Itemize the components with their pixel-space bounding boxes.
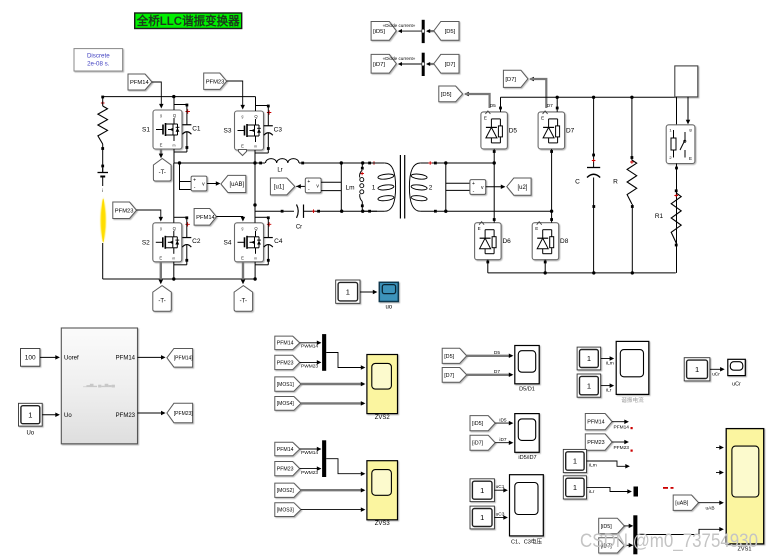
svg-text:m: m [254, 145, 257, 149]
svg-text:PFM23: PFM23 [614, 445, 630, 451]
svg-text:PWM14: PWM14 [301, 450, 318, 456]
svg-text:E: E [241, 144, 244, 149]
svg-text:D5: D5 [494, 350, 500, 356]
svg-text:g: g [242, 115, 244, 119]
svg-text:1: 1 [587, 381, 591, 390]
svg-text:iD5: iD5 [499, 417, 507, 423]
svg-text:«Diode current»: «Diode current» [383, 56, 416, 61]
svg-text:PFM14: PFM14 [116, 356, 136, 362]
svg-text:iD5/iD7: iD5/iD7 [518, 455, 536, 461]
svg-text:m: m [173, 144, 176, 148]
svg-text:[D7]: [D7] [445, 62, 456, 68]
svg-text:PFM14: PFM14 [587, 420, 604, 426]
svg-text:R: R [613, 179, 618, 186]
svg-text:1: 1 [587, 354, 591, 363]
svg-text:[iD7]: [iD7] [373, 62, 385, 68]
svg-text:C2: C2 [192, 238, 201, 245]
svg-text:C4: C4 [274, 238, 283, 245]
svg-text:D7: D7 [494, 369, 500, 375]
svg-text:C1、C3电压: C1、C3电压 [511, 538, 542, 546]
svg-text:C3: C3 [274, 126, 283, 133]
svg-text:S2: S2 [142, 239, 150, 246]
svg-text:E: E [541, 115, 544, 120]
svg-text:E: E [478, 226, 481, 231]
svg-text:PFM23: PFM23 [115, 208, 134, 214]
svg-text:PFM14: PFM14 [196, 215, 215, 221]
svg-text:iD7: iD7 [499, 437, 507, 443]
svg-text:D6: D6 [502, 238, 511, 245]
svg-text:uo: uo [385, 305, 392, 311]
svg-text:+: + [472, 181, 475, 187]
svg-text:[u1]: [u1] [274, 185, 284, 191]
svg-text:1: 1 [573, 483, 577, 492]
svg-text:D8: D8 [560, 238, 569, 245]
svg-text:D5: D5 [490, 103, 496, 109]
svg-text:[D7]: [D7] [444, 373, 454, 379]
svg-text:iLr: iLr [606, 388, 612, 394]
svg-text:Uoref: Uoref [64, 356, 79, 362]
svg-text:iLr: iLr [589, 489, 595, 495]
svg-text:1: 1 [480, 513, 484, 522]
svg-text:-T-: -T- [158, 299, 165, 305]
svg-text:g: g [689, 127, 691, 132]
svg-text:g: g [160, 114, 162, 118]
svg-text:[D5]: [D5] [445, 29, 456, 35]
svg-text:«Diode current»: «Diode current» [383, 23, 416, 28]
svg-text:E: E [160, 143, 163, 148]
svg-text:[uAB]: [uAB] [675, 501, 689, 507]
svg-text:[D7]: [D7] [505, 77, 516, 83]
svg-text:[iD5]: [iD5] [472, 421, 484, 427]
svg-text:1: 1 [28, 410, 32, 419]
svg-text:ZVS3: ZVS3 [375, 521, 391, 527]
svg-text:1: 1 [573, 457, 577, 466]
svg-text:i: i [102, 188, 103, 193]
svg-text:CSDN @m0_73754930: CSDN @m0_73754930 [580, 530, 758, 552]
svg-text:D5: D5 [509, 127, 518, 134]
svg-text:-T-: -T- [240, 299, 247, 305]
svg-text:2: 2 [429, 184, 433, 191]
svg-text:PFM23: PFM23 [277, 360, 294, 366]
svg-text:PFM14: PFM14 [277, 447, 294, 453]
svg-text:2e-08 s.: 2e-08 s. [87, 61, 110, 68]
svg-text:[uAB]: [uAB] [230, 182, 245, 188]
svg-text:iLm: iLm [589, 463, 597, 469]
svg-text:uCr: uCr [712, 372, 720, 378]
svg-text:Uo: Uo [26, 431, 34, 437]
svg-text:S1: S1 [142, 127, 150, 134]
svg-text:PFM23: PFM23 [116, 413, 136, 419]
svg-text:iLm: iLm [606, 361, 614, 367]
svg-text:PFM14: PFM14 [130, 80, 149, 86]
svg-text:S4: S4 [224, 239, 232, 246]
svg-text:[MOS3]: [MOS3] [277, 507, 295, 513]
svg-text:uC1: uC1 [496, 484, 505, 490]
svg-text:PFM14: PFM14 [614, 425, 630, 431]
svg-text:1: 1 [695, 365, 699, 374]
svg-text:1: 1 [346, 287, 350, 296]
svg-text:Discrete: Discrete [87, 53, 110, 60]
svg-text:全桥LLC谐振变换器: 全桥LLC谐振变换器 [136, 13, 241, 28]
svg-text:E: E [535, 226, 538, 231]
svg-text:[iD7]: [iD7] [472, 441, 484, 447]
svg-text:[u2]: [u2] [517, 185, 527, 191]
svg-text:100: 100 [25, 355, 36, 362]
svg-text:Cr: Cr [296, 225, 302, 231]
svg-text:E: E [689, 156, 692, 161]
svg-text:C1: C1 [192, 125, 201, 132]
svg-text:[D5]: [D5] [444, 354, 454, 360]
svg-text:[PFM14]: [PFM14] [174, 356, 194, 362]
svg-text:E: E [159, 255, 162, 260]
svg-text:D7: D7 [547, 103, 553, 109]
svg-text:-T-: -T- [159, 170, 166, 176]
svg-text:1: 1 [480, 486, 484, 495]
svg-text:谐振电流: 谐振电流 [621, 396, 644, 404]
svg-text:PFM14: PFM14 [277, 341, 294, 347]
svg-text:PFM23: PFM23 [206, 79, 225, 85]
svg-text:[MOS4]: [MOS4] [277, 401, 295, 407]
svg-text:uAB: uAB [705, 506, 714, 512]
svg-text:PWM23: PWM23 [301, 364, 318, 370]
svg-text:E: E [241, 255, 244, 260]
svg-text:Lr: Lr [277, 168, 282, 174]
svg-text:S3: S3 [224, 128, 232, 135]
svg-text:m: m [172, 256, 175, 260]
svg-text:D7: D7 [566, 127, 575, 134]
svg-text:PWM23: PWM23 [301, 470, 318, 476]
svg-text:[D5]: [D5] [441, 92, 452, 98]
svg-text:Uo: Uo [64, 413, 72, 419]
svg-text:PFM23: PFM23 [277, 467, 294, 473]
svg-text:R1: R1 [655, 213, 664, 220]
svg-text:+: + [193, 177, 196, 183]
svg-text:E: E [484, 115, 487, 120]
svg-text:1: 1 [372, 184, 376, 191]
svg-text:g: g [160, 226, 162, 230]
svg-text:+: + [307, 179, 310, 185]
svg-text:PFM23: PFM23 [587, 440, 604, 446]
svg-text:ZVS2: ZVS2 [375, 415, 391, 421]
svg-text:[PFM23]: [PFM23] [174, 411, 194, 417]
svg-text:uC3: uC3 [496, 512, 505, 518]
svg-text:D5/D1: D5/D1 [519, 387, 535, 393]
svg-text:g: g [242, 226, 244, 230]
svg-text:uCr: uCr [732, 382, 741, 388]
svg-text:[MOS1]: [MOS1] [277, 382, 295, 388]
svg-text:PWM14: PWM14 [301, 344, 318, 350]
svg-text:[iD5]: [iD5] [601, 524, 613, 530]
svg-text:[MOS2]: [MOS2] [277, 488, 295, 494]
svg-text:Lm: Lm [345, 185, 354, 192]
svg-text:C: C [575, 179, 580, 186]
svg-text:[iD5]: [iD5] [373, 29, 385, 35]
svg-text:m: m [254, 256, 257, 260]
